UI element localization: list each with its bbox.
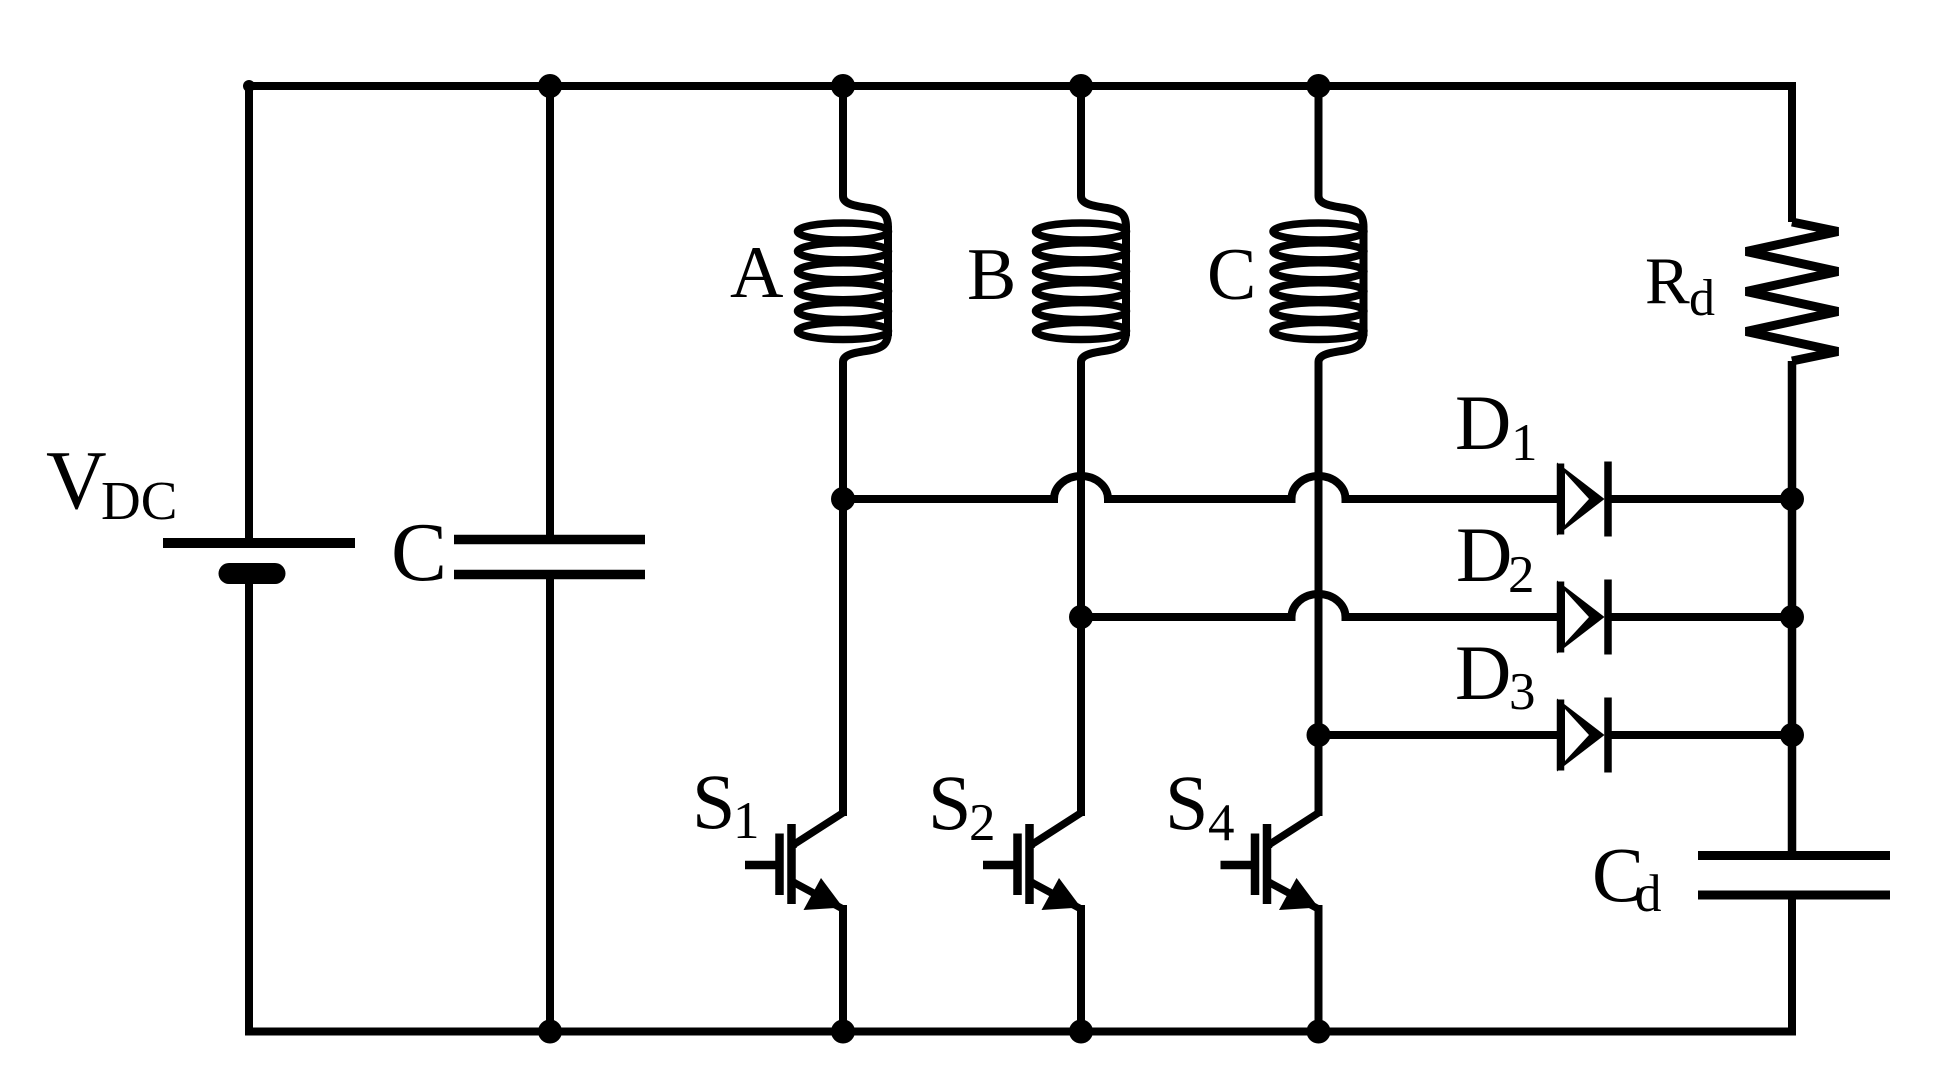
svg-text:S: S [1165, 759, 1208, 846]
svg-text:1: 1 [733, 792, 760, 850]
svg-text:S: S [928, 759, 971, 846]
svg-text:4: 4 [1208, 794, 1235, 852]
svg-text:S: S [692, 758, 735, 845]
svg-text:1: 1 [1511, 414, 1538, 472]
svg-text:D: D [1456, 511, 1512, 598]
svg-text:2: 2 [1508, 546, 1535, 604]
svg-text:B: B [967, 234, 1016, 316]
svg-text:DC: DC [101, 470, 177, 531]
svg-text:3: 3 [1509, 663, 1536, 721]
svg-text:C: C [1207, 234, 1256, 316]
svg-text:d: d [1689, 270, 1715, 327]
svg-text:d: d [1635, 865, 1662, 923]
svg-text:D: D [1455, 379, 1511, 466]
svg-text:C: C [391, 506, 447, 599]
svg-text:D: D [1455, 629, 1511, 716]
svg-text:A: A [730, 232, 783, 314]
svg-text:R: R [1645, 244, 1690, 318]
svg-text:2: 2 [969, 794, 996, 852]
svg-text:V: V [46, 434, 107, 527]
